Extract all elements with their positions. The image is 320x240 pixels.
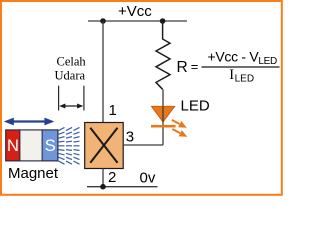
svg-text:=: = <box>191 59 199 74</box>
0v rail wire <box>87 186 158 188</box>
svg-text:Celah: Celah <box>57 54 87 68</box>
hall sensor U1 body <box>85 123 124 169</box>
svg-text:LED: LED <box>181 98 210 115</box>
svg-text:I: I <box>229 67 234 83</box>
wire resistor to LED through to pin3 level <box>162 89 164 106</box>
wire pin 2 to 0v rail <box>102 169 104 187</box>
svg-text:0v: 0v <box>140 170 156 187</box>
magnet motion arrow <box>4 118 55 126</box>
svg-text:+Vcc: +Vcc <box>118 3 152 20</box>
svg-text:N: N <box>7 137 19 155</box>
svg-text:+Vcc - VLED: +Vcc - VLED <box>208 49 278 68</box>
formula label R = (+Vcc - Vled)/Iled <box>177 49 280 85</box>
svg-text:Magnet: Magnet <box>8 165 59 182</box>
+Vcc rail wire <box>88 20 187 22</box>
svg-text:R: R <box>177 59 188 76</box>
node junction dot left <box>100 18 106 24</box>
wire rail to pin 1 <box>102 21 104 123</box>
air gap dimension arrow <box>59 104 83 109</box>
LED D1 <box>151 106 176 145</box>
air gap tick left <box>58 86 60 111</box>
svg-text:Udara: Udara <box>55 68 86 82</box>
LED light arrow 2 <box>172 129 187 137</box>
frame border <box>1 1 282 195</box>
node junction dot right <box>160 18 166 24</box>
magnetic field lines <box>59 127 80 164</box>
svg-text:3: 3 <box>126 129 134 146</box>
svg-text:S: S <box>45 137 56 155</box>
resistor R <box>156 21 170 89</box>
hall sensor X mark <box>90 128 117 163</box>
wire pin 3 to LED cathode <box>123 144 163 146</box>
svg-text:1: 1 <box>109 102 117 119</box>
svg-text:LED: LED <box>235 74 254 85</box>
LED light arrow 1 <box>172 120 187 128</box>
node junction dot bottom <box>100 184 106 190</box>
air gap tick right <box>83 86 85 111</box>
svg-text:2: 2 <box>108 169 116 186</box>
magnet body <box>6 130 58 161</box>
